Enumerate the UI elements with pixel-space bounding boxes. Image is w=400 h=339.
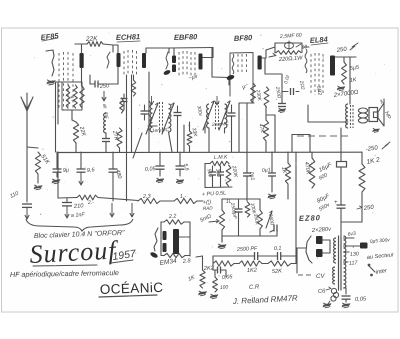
tube label EF85 [40, 31, 60, 42]
IFT2 leads down [205, 124, 225, 152]
cap 0,1 det [268, 152, 276, 192]
ground blob antenna input [47, 80, 56, 85]
PU jack symbols [203, 199, 232, 206]
title OCEANIC [100, 280, 164, 297]
svg-text:CV: CV [316, 273, 326, 280]
wire EL84 anode to OT [335, 57, 356, 104]
arrow down dial1 [110, 203, 114, 217]
svg-text:+: + [334, 200, 338, 206]
label RAD [203, 205, 214, 211]
resistor 51K antenna [35, 152, 40, 174]
cap antenna bottom [22, 204, 32, 219]
feedback box wires [275, 43, 302, 53]
switch inter [368, 264, 389, 277]
tube ECH81 bar left [117, 53, 121, 67]
IFT2 core dashes [216, 102, 219, 130]
label 1K [349, 77, 357, 84]
wire feedback to EL84 grid [302, 46, 309, 48]
wire ECH81 grid top [113, 45, 118, 53]
tube EZ80 bar1 [316, 236, 323, 244]
arrow down dial2 [130, 203, 134, 217]
cap 9u filter [53, 152, 62, 177]
PT primary winding upper [334, 238, 336, 263]
feedback resistor 220ohm [276, 51, 301, 55]
rail B+ horizontal [57, 151, 362, 153]
ground 100 tone [210, 294, 218, 299]
label 110 heater [73, 203, 85, 210]
label 1K2 [247, 267, 258, 274]
ground 5,6 rail [176, 179, 184, 184]
LMK box top resistor [205, 161, 229, 165]
wire af top [222, 199, 260, 210]
cap 2500pF [235, 199, 243, 220]
label 2500PF coupling [236, 246, 258, 253]
svg-text:130: 130 [350, 251, 359, 258]
svg-text:BF80: BF80 [234, 33, 254, 43]
resistor 470K [309, 152, 315, 188]
svg-text:2.2: 2.2 [168, 213, 177, 220]
resistor 350K [258, 210, 263, 229]
EM34 frame [161, 222, 190, 256]
label 0,02 rot [283, 74, 290, 84]
PT tap fuse [344, 237, 391, 248]
label 51K rot [39, 154, 50, 167]
wire af mid down [221, 236, 223, 242]
label 250v arrow [357, 205, 375, 213]
label 1K det rot [280, 166, 287, 174]
label HP [383, 111, 391, 121]
PT tap 130 [344, 251, 360, 258]
wire 22Kb to rail [75, 143, 77, 152]
tube EL84 anode bar [330, 56, 335, 76]
tube label ECH81 [116, 32, 140, 42]
cap 0,05 tone [213, 264, 226, 278]
label 2eme MC [211, 121, 230, 128]
tube EL84 cathode squiggle [315, 85, 323, 95]
cap 9.6 filter [77, 152, 86, 172]
label 480 rot [114, 169, 122, 180]
title underline [33, 265, 97, 266]
wire EBF80 anode top [203, 48, 214, 58]
signature [232, 294, 299, 306]
EM34 mid wire [179, 236, 190, 238]
label 2x7000 ohm [332, 90, 359, 100]
resistor 33K mid [187, 122, 192, 152]
svg-text:1K: 1K [349, 77, 357, 84]
svg-text:1.-: 1.- [180, 194, 187, 200]
wire screen node [282, 74, 299, 92]
EM34 bar large [173, 229, 179, 254]
LMK resistor 220K [226, 165, 231, 186]
wire EZ80 cathode [297, 248, 306, 273]
label 33K rot [191, 127, 199, 137]
wire OT bottom dashed [297, 135, 352, 137]
wire pot to ground [221, 230, 223, 242]
resistor 52K [268, 261, 291, 266]
resistor 22K label [85, 35, 99, 43]
label mu arrow [241, 82, 250, 91]
ground 51K [34, 185, 43, 190]
label 2.5MF 60v [279, 32, 302, 40]
svg-text:1K2: 1K2 [247, 267, 258, 274]
wire BF80 grid path [212, 48, 229, 86]
wire ECH81 left bar down [112, 67, 118, 84]
wire long vertical audio [295, 152, 297, 256]
label au secteur [367, 252, 396, 261]
tube ECH81 bar right [142, 53, 146, 68]
EM34 bottom resistor [161, 253, 190, 257]
wire EF85 cathode to box [81, 68, 83, 86]
tube ECH81 grid curve [107, 52, 110, 68]
wire EZ80 top [340, 222, 342, 236]
tube label EBF80 [174, 32, 198, 42]
rail heater left [58, 152, 77, 198]
label 0,1L rot [248, 171, 255, 181]
volume pot arrow [209, 220, 219, 223]
text 1957 [111, 248, 138, 263]
resistor 230K screen [251, 83, 256, 103]
resistor 4 heater [77, 195, 98, 206]
IFT2 trimmer cap [228, 105, 236, 152]
oscillator coil [104, 113, 106, 133]
resistor 22K bottom [73, 122, 78, 143]
wire EF85 anode to 22K [75, 44, 82, 53]
IFT2 tuning arrow right [219, 101, 230, 130]
label 300v rot [196, 105, 204, 117]
tube EF85 anode bar [80, 53, 84, 68]
label 100K rot [249, 202, 257, 215]
svg-text:0,05: 0,05 [222, 274, 234, 281]
EM34 top resistor [161, 220, 190, 224]
wire 250 node [341, 192, 362, 222]
wire tone b [262, 263, 268, 265]
wire 47K bottom [265, 141, 267, 152]
label 1ere MC [152, 127, 170, 134]
label C6 [318, 287, 331, 295]
wire long vertical d [246, 103, 248, 152]
resistor 1K 2W [359, 152, 365, 192]
tube label EF80 [234, 33, 254, 43]
ground mains cap [342, 299, 351, 308]
antenna coil winding [66, 85, 75, 108]
svg-text:1K: 1K [280, 166, 287, 174]
label 0,05 tone [222, 274, 234, 281]
tube EBF80 anode bar [199, 54, 203, 70]
tube EF85 envelope [59, 52, 73, 110]
label 220K rot [230, 164, 238, 178]
wire tone a [234, 263, 239, 265]
resistor 1 heater [174, 194, 197, 204]
resistor 100 tone [213, 270, 218, 292]
resistor 27K [117, 128, 122, 152]
bloc clavier brace [26, 219, 133, 231]
tube label EL84 [310, 35, 329, 45]
resistor padder [120, 98, 124, 113]
volume pot resistor [219, 210, 224, 230]
label 230K rot [254, 88, 262, 102]
svg-text:L.M.K: L.M.K [214, 154, 228, 161]
resistor 100K af [245, 202, 250, 217]
pot 3600 arrow [266, 211, 272, 228]
EM34 bar small1 [163, 231, 167, 240]
IFT1 leads [148, 126, 172, 152]
wire screen cap down [281, 92, 283, 104]
PT core [339, 236, 342, 290]
wire long vertical a [126, 75, 128, 201]
wire 51K to ground [37, 174, 39, 183]
wire af mid [222, 220, 277, 236]
tube EZ80 bar2 [316, 249, 323, 257]
label CR [249, 284, 260, 291]
label 1K left low [187, 274, 196, 282]
label 250v at EL84 [335, 43, 358, 54]
rail heater mid2 [160, 200, 174, 202]
svg-text:ECH81: ECH81 [116, 32, 140, 42]
text HF aperiodique [10, 268, 119, 279]
EM34 pointer wavy [149, 228, 158, 259]
ground below anode resistor [337, 86, 345, 91]
svg-text:210: 210 [73, 203, 85, 210]
cap 80uF [334, 197, 346, 222]
svg-text:0µ1: 0µ1 [262, 167, 271, 174]
label 0,1 coupling [274, 246, 282, 252]
label 1M pot [199, 213, 212, 223]
svg-text:9µ: 9µ [63, 167, 70, 174]
grid coupling cap 250 [95, 81, 110, 91]
resistor 2.3 heater [138, 194, 160, 204]
label 9,6 [87, 167, 96, 174]
jack coil scribble [331, 288, 339, 301]
label 9u [63, 167, 70, 174]
svg-text:52K: 52K [272, 268, 283, 275]
svg-text:RAD: RAD [203, 205, 214, 211]
resistor ECH81 cathode [131, 75, 135, 96]
antenna symbol [21, 93, 33, 111]
ground jack [323, 301, 332, 308]
scan noise [17, 33, 385, 297]
resistor left low [196, 256, 205, 288]
antenna coil box [62, 82, 82, 110]
padder cap [121, 94, 128, 110]
resistor 22K [87, 42, 103, 47]
tube BF80 grid wavy [226, 54, 235, 81]
svg-text:2.-: 2.- [87, 200, 95, 206]
resistor 2K2 [213, 261, 234, 266]
ground 0,05 rail [156, 170, 164, 183]
antenna branch [27, 147, 38, 148]
resistor 47K [263, 120, 268, 141]
wire OT to rail [340, 128, 342, 152]
label ~60v [296, 44, 308, 51]
svg-text:117: 117 [349, 260, 359, 267]
label 250 rot [274, 85, 282, 99]
svg-text:2500 PF: 2500 PF [236, 246, 258, 253]
tube BF80 inner dashes [238, 54, 247, 72]
wire 47K top [266, 107, 275, 152]
label 350K rot [252, 213, 260, 226]
svg-text:100: 100 [220, 284, 229, 291]
wire EL84 screen down [308, 105, 348, 122]
wire cap to osc [90, 75, 112, 84]
EM34 bar small2 [163, 243, 167, 252]
IFT1 grid cap [141, 105, 149, 120]
wire long vertical c [148, 72, 150, 152]
text bloc clavier [34, 230, 125, 240]
svg-text:0,05: 0,05 [145, 166, 157, 173]
svg-text:1ereMC: 1ereMC [152, 127, 170, 134]
IFT1 left coil [150, 104, 152, 132]
svg-text:EBF80: EBF80 [174, 32, 198, 42]
PT bottom lead [344, 288, 347, 294]
svg-text:OCÉANiC: OCÉANiC [100, 280, 164, 297]
svg-text:C.R: C.R [249, 284, 260, 291]
wire BF80 anode right [262, 47, 275, 58]
label 510 rot [206, 168, 213, 177]
label 470K rot [303, 161, 311, 175]
rail heater mid [98, 198, 138, 201]
svg-text:EZ80: EZ80 [299, 213, 321, 223]
LMK box left [204, 164, 206, 188]
svg-text:2emMC: 2emMC [211, 121, 230, 128]
cap 16uF [337, 152, 347, 197]
svg-text:Surcouf: Surcouf [29, 235, 120, 269]
svg-text:a 1nF: a 1nF [71, 212, 86, 219]
cap screen bypass [278, 104, 286, 107]
cap 110 heater [62, 199, 72, 219]
label M right edge [380, 99, 387, 106]
cap coupling 2500 [240, 252, 268, 260]
label 52K [272, 268, 283, 275]
OCEANIC underline [99, 295, 157, 297]
cap 0,02 screen [291, 88, 294, 95]
svg-text:2.3: 2.3 [142, 194, 152, 200]
wire top long to EBF80 [169, 48, 213, 56]
wire tone right up [291, 256, 296, 264]
cap 0,05 mains [342, 296, 368, 303]
resistor 1K det [285, 152, 290, 199]
cap coupling 01 [268, 252, 296, 260]
feedback arrow [269, 54, 276, 58]
label 2.2 [168, 213, 177, 220]
label EZ80 [299, 213, 321, 223]
PT secondary winding [344, 236, 346, 288]
switch arm diagonal [133, 133, 142, 158]
tube BF80 envelope box [230, 53, 254, 153]
wire osc to rail [105, 133, 107, 152]
IFT1 tuning arrow right [162, 103, 174, 134]
antenna down wire [26, 111, 28, 202]
label 27K rot [111, 129, 119, 141]
label LMK [214, 154, 228, 161]
label 1K 2W [366, 156, 381, 166]
label 16uF 600v [318, 162, 333, 182]
IFT2 right coil [225, 104, 227, 128]
wire 0,1L cap [243, 152, 251, 201]
tube BF80 anode bar [258, 56, 262, 70]
wire screen bracket [292, 135, 310, 153]
detector cap lead [174, 106, 185, 152]
label 22K rot [78, 125, 87, 137]
label 0,1 det [262, 167, 271, 174]
resistor EF85 anode load [80, 86, 84, 108]
resistor 1K2 [239, 261, 262, 266]
LMK cap 510 [209, 166, 216, 187]
label 5,6 rot [182, 163, 190, 172]
svg-text:0,05: 0,05 [355, 296, 367, 303]
antenna coil secondary [74, 85, 78, 108]
rail heater right [197, 200, 203, 202]
svg-text:HF apériodique/cadre ferromacu: HF apériodique/cadre ferromacule [10, 268, 119, 279]
cap 480 [109, 152, 118, 201]
label 110 antenna [9, 190, 20, 200]
svg-text:0,1: 0,1 [274, 246, 282, 252]
IFT1 right coil [169, 104, 171, 132]
IFT2 left coil [207, 104, 209, 128]
IFT2 tuning arrow left [203, 96, 219, 130]
label -250 rail [365, 142, 390, 153]
label 220ohm 1W [278, 55, 304, 63]
wire BF80 anode down [265, 58, 281, 74]
label 2500pF rot [229, 201, 238, 220]
title Surcouf [29, 235, 120, 269]
osc coil cap [102, 139, 110, 142]
wire top grid EF85 [46, 50, 54, 76]
resistor tone 5n5 on anode [342, 57, 347, 84]
tube EBF80 bars stacked [172, 56, 176, 73]
wire long vertical b [131, 75, 133, 152]
IFT1 core dashes [160, 102, 163, 134]
label 100 tone [220, 284, 229, 291]
arrow below 9.6 [79, 173, 83, 186]
output transformer primary coil [346, 104, 348, 128]
tube EBF80 envelope [179, 51, 195, 76]
cap small af [270, 225, 277, 233]
tube EZ80 envelope curve [306, 236, 312, 263]
ground 0,1 det [268, 194, 277, 199]
LMK cap 380 [217, 166, 224, 187]
label 2K2 [203, 265, 215, 272]
wire EZ80 plates [323, 240, 331, 253]
wire box bottom to 22Kb [72, 110, 76, 122]
label 0,05 rail [145, 166, 157, 173]
wire ECH81 anode up [146, 48, 169, 53]
ground 9u [52, 179, 61, 184]
IFT1 tuning arrow left [146, 96, 158, 134]
label 380 rot [214, 168, 221, 177]
PT tap 6v3 [344, 231, 357, 238]
tube ECH81 envelope [124, 50, 137, 75]
tube EBF80 grid lead [163, 52, 171, 76]
cap 5,6 rail [176, 152, 185, 176]
label EM34 [159, 258, 177, 267]
label uV squiggle [188, 73, 200, 81]
osc arrow down [102, 91, 106, 101]
tube EL84 grid wavy [305, 49, 307, 73]
ground pot [218, 244, 227, 249]
feedback capacitor 2.5MF [285, 41, 294, 50]
ground left low [198, 291, 207, 296]
label 2.8 [182, 258, 192, 265]
cap 0,05 rail [156, 152, 165, 169]
label 5u5 [349, 65, 360, 72]
speaker voice coil loops [358, 108, 367, 123]
tube EL84 envelope [311, 53, 323, 95]
PT primary winding lower [333, 267, 335, 284]
wire tone left [213, 256, 240, 263]
label 80uF 550v [316, 193, 331, 213]
label 3600 rot [267, 213, 275, 226]
PT tap 117 [344, 260, 359, 267]
